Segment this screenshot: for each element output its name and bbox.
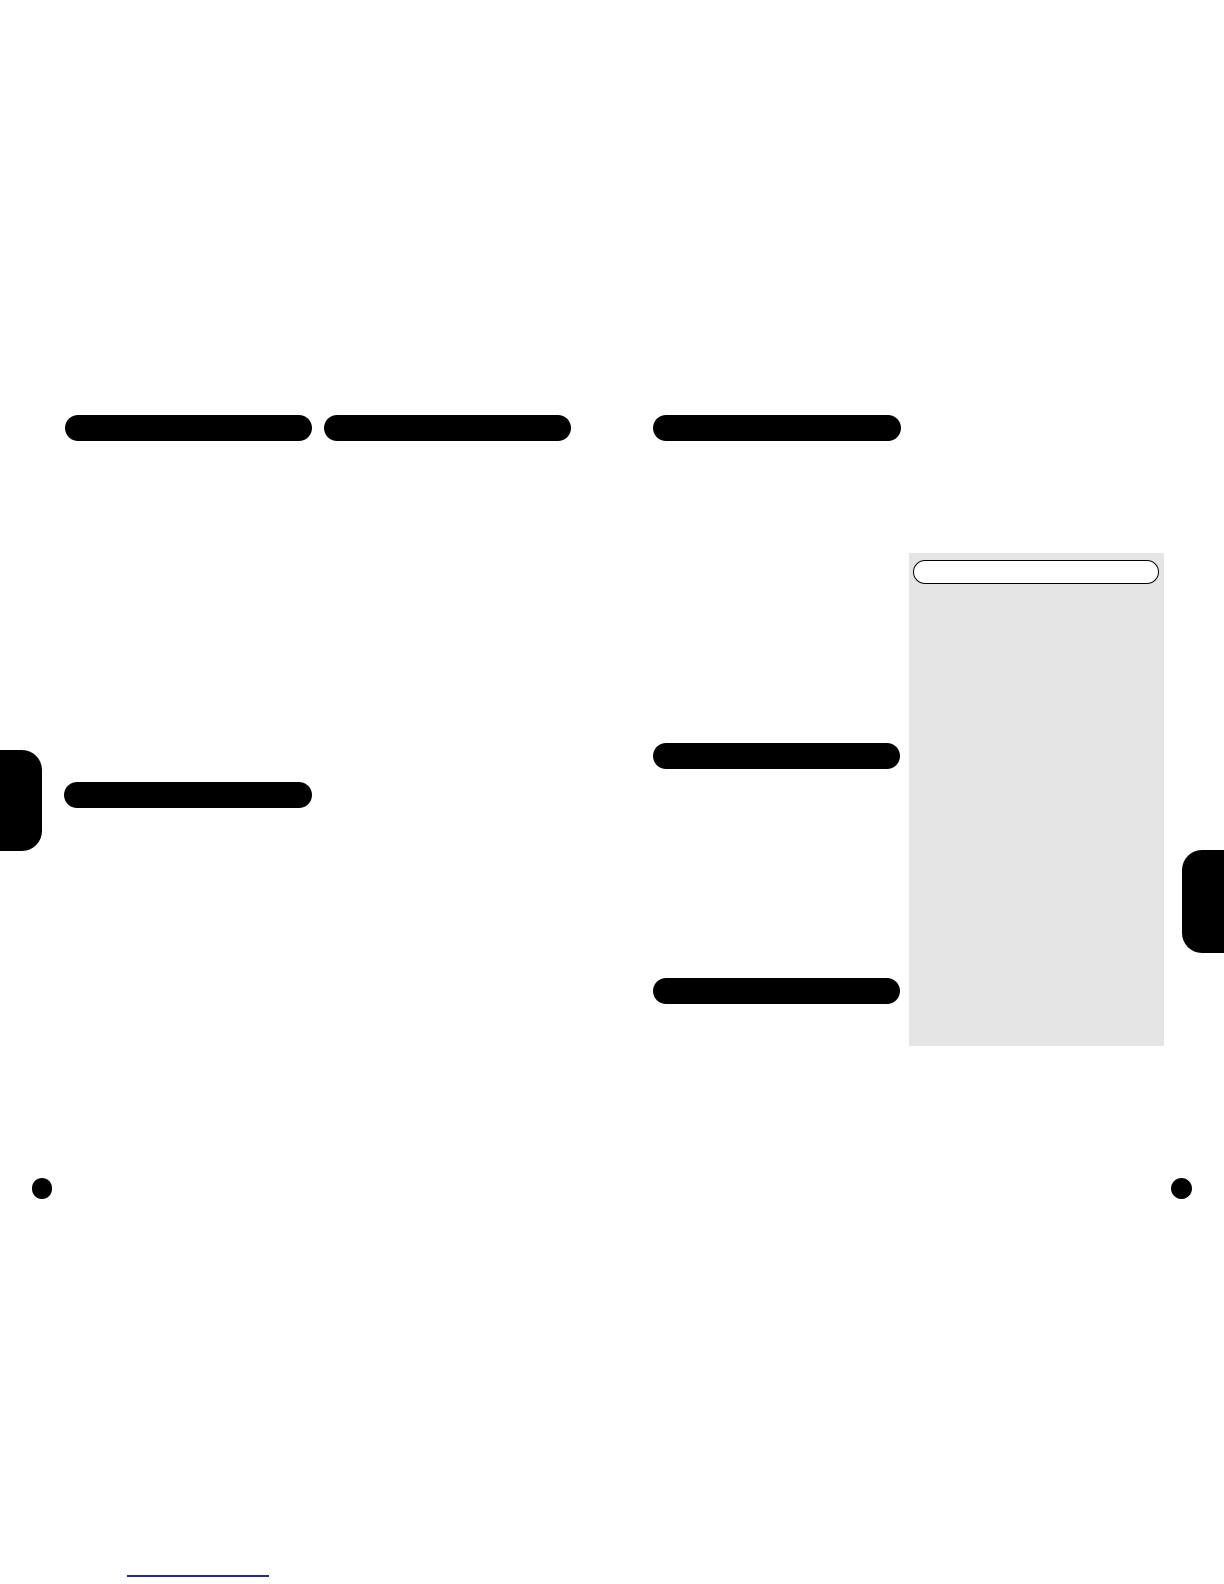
left edge black tab bbox=[0, 750, 42, 851]
redaction bar D (left, mid) bbox=[64, 782, 312, 808]
left bullet dot bbox=[32, 1178, 53, 1199]
blue hyperlink underline (bottom-left) bbox=[127, 1575, 269, 1577]
redaction bar C (top-right) bbox=[653, 415, 902, 441]
white pill with black border inside sidebar bbox=[913, 560, 1159, 584]
right edge black tab bbox=[1182, 850, 1224, 953]
right bullet dot bbox=[1171, 1178, 1192, 1199]
gray sidebar panel bbox=[909, 553, 1164, 1046]
redaction bar E (right column, mid) bbox=[653, 743, 900, 769]
redaction bar B (top-middle) bbox=[324, 415, 571, 441]
redaction bar A (top-left) bbox=[65, 415, 313, 441]
redaction bar F (right column, lower) bbox=[653, 978, 900, 1004]
